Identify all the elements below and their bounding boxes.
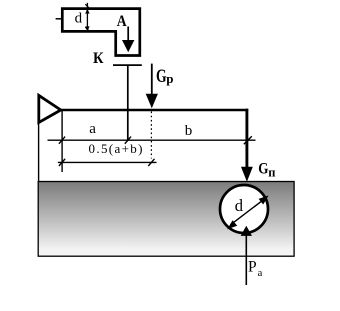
tick at rod on a-b line [125,137,131,144]
load line (right vertical from beam end) [245,109,248,168]
svg-text:d: d [75,10,83,26]
force Gpi arrowhead [241,167,253,182]
svg-text:р: р [166,71,173,86]
sphere (circle d) [220,185,268,233]
tick left on 0.5 line [59,159,65,166]
rod K (vertical link through beam) [127,65,129,141]
dimension d line [86,3,88,31]
beam (lever arm) [59,109,249,112]
svg-text:п: п [268,166,275,180]
diameter arrow [231,198,266,225]
dimension line a-b [48,139,256,141]
svg-text:а: а [258,268,263,279]
svg-text:A: A [117,13,127,30]
support K top line [113,64,142,66]
svg-text:G: G [258,161,268,178]
bracket (stepped L-shaped body) [62,9,140,56]
svg-text:G: G [156,66,167,87]
svg-text:b: b [185,123,193,139]
dimension d top arrow [85,9,89,14]
tick at load line on a-b line [244,136,252,144]
force Gp arrow [151,64,153,95]
svg-text:d: d [235,196,244,215]
centerline dotted (load position) [150,112,152,159]
tick right on 0.5 line [148,159,154,166]
force Pa arrow (upward) [245,232,247,285]
svg-text:К: К [93,50,104,67]
svg-text:P: P [248,259,257,276]
ground block (gradient soil/water region) [38,182,294,257]
svg-text:0.5(a+b): 0.5(a+b) [89,141,144,156]
left edge tick [56,18,63,20]
dimension d bottom arrow [85,26,89,31]
pivot triangle support [39,95,61,122]
force A arrow [127,27,129,43]
tick at apex on a-b line [59,137,65,144]
svg-text:a: a [89,121,96,137]
extension line left (under triangle) [38,123,40,182]
extension line under apex [61,111,63,172]
dimension line 0.5(a+b) [58,161,157,163]
